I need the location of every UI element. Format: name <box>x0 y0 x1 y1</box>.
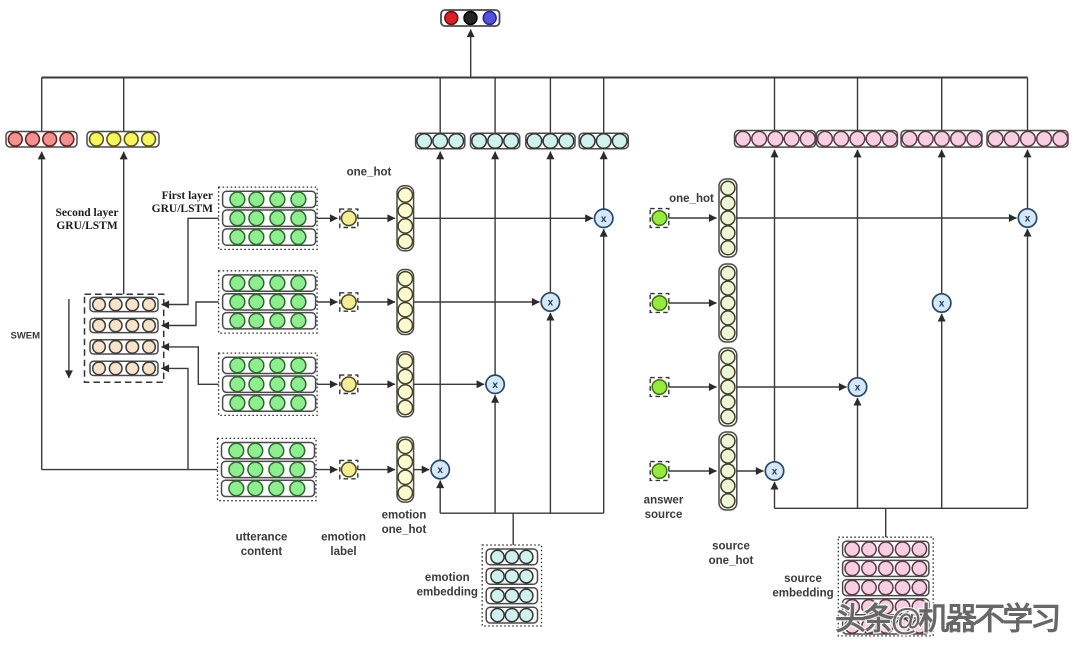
wire source embedding up into X4r <box>774 482 776 508</box>
emotion one_hot column 1 <box>397 186 414 251</box>
svg-text:one_hot: one_hot <box>709 555 754 567</box>
wire source one_hot4 to X4r <box>737 470 764 472</box>
wire block4 output left <box>42 469 218 471</box>
svg-text:First layer: First layer <box>162 190 213 202</box>
svg-text:embedding: embedding <box>772 588 833 600</box>
cyan weighted row 1 <box>416 133 465 149</box>
wire embedding up into X4 <box>439 481 441 514</box>
svg-text:utterance: utterance <box>236 532 288 544</box>
wire source one_hot3 to X3r <box>737 386 847 388</box>
pink weighted row 4 <box>987 131 1068 148</box>
wire embedding up into X1 <box>603 229 605 513</box>
wire bus horizontal <box>42 77 1028 79</box>
svg-text:one_hot: one_hot <box>382 524 427 536</box>
multiply node X2r <box>933 294 951 312</box>
wire X4r output into pink row 1 <box>774 150 776 462</box>
label one_hot left <box>347 167 392 179</box>
wire source embedding up into X2r <box>941 314 943 508</box>
wire emotion label 1 to one_hot column 1 <box>358 217 395 219</box>
wire block2 to SWEM row2 <box>162 302 219 326</box>
output classifier box <box>441 10 500 26</box>
emotion label node 2 <box>340 293 358 311</box>
answer source node 2 <box>650 294 669 313</box>
wire bus drop to pink row 4 <box>1027 78 1029 131</box>
wire arrow into output box <box>470 30 472 78</box>
pink weighted row 2 <box>817 131 898 148</box>
label emotion one_hot <box>382 510 427 537</box>
multiply node X3 <box>486 375 504 393</box>
utterance content block 3 <box>219 353 318 415</box>
wire source embedding up into X1r <box>1027 229 1029 508</box>
wire utterance4 up into red row <box>41 152 43 470</box>
label utterance content <box>236 532 288 559</box>
wire X3 output into cyan row 2 <box>494 152 496 376</box>
wire block3 to SWEM row3 <box>162 347 219 384</box>
emotion label node 1 <box>340 209 358 227</box>
wire X2 output into cyan row 3 <box>549 152 551 293</box>
wire bus drop to cyan row 4 <box>603 78 605 134</box>
svg-text:x: x <box>1025 214 1031 225</box>
wire bus drop to cyan row 1 <box>439 78 441 134</box>
svg-text:source: source <box>645 509 683 521</box>
emotion embedding box <box>482 545 541 626</box>
wire bus drop to red row <box>41 78 43 132</box>
label second layer GRU/LSTM <box>56 207 119 232</box>
svg-text:source: source <box>712 541 750 553</box>
cyan weighted row 2 <box>471 133 520 149</box>
multiply node X4 <box>431 460 449 478</box>
svg-text:emotion: emotion <box>321 532 366 544</box>
svg-text:x: x <box>855 383 861 394</box>
pink weighted row 3 <box>901 131 982 148</box>
wire emotion label 3 to one_hot column 3 <box>358 383 395 385</box>
multiply node X1 <box>595 209 613 227</box>
wire bus drop to pink row 1 <box>774 78 776 131</box>
wire X2r output into pink row 3 <box>941 150 943 294</box>
svg-text:label: label <box>330 546 356 558</box>
label answer source <box>644 495 684 522</box>
wire emotion label 2 to one_hot column 2 <box>358 301 395 303</box>
SWEM pooled row 4 <box>90 361 158 375</box>
source one_hot column 2 <box>719 264 737 342</box>
wire bus drop to pink row 2 <box>857 78 859 131</box>
svg-text:x: x <box>939 299 945 310</box>
answer source node 4 <box>650 462 669 481</box>
svg-text:SWEM: SWEM <box>11 331 41 342</box>
second-layer red state row <box>6 132 77 148</box>
svg-text:embedding: embedding <box>417 587 478 599</box>
svg-text:content: content <box>241 546 283 558</box>
second-layer yellow state row <box>87 132 159 148</box>
wire embedding up into X2 <box>549 313 551 513</box>
svg-text:answer: answer <box>644 495 684 507</box>
wire answer source 1 to source one_hot 1 <box>669 217 717 219</box>
SWEM pooled row 1 <box>90 297 158 311</box>
multiply node X2 <box>541 293 559 311</box>
wire source embedding up into X3r <box>857 398 859 508</box>
label one_hot right <box>669 193 714 205</box>
wire block4 branch to SWEM row4 <box>162 368 189 469</box>
label SWEM <box>11 331 41 342</box>
wire answer source 3 to source one_hot 3 <box>669 386 717 388</box>
multiply node X4r <box>765 462 783 480</box>
label first layer GRU/LSTM <box>152 190 213 215</box>
svg-text:source: source <box>784 573 822 585</box>
wire one_hot1 to X1 <box>414 217 593 219</box>
wire bus drop to pink row 3 <box>941 78 943 131</box>
label source embedding <box>772 573 833 600</box>
wire emotion embedding riser <box>512 513 514 545</box>
utterance content block 4 <box>218 438 317 500</box>
wire X4 output into cyan row 1 <box>439 152 441 461</box>
svg-text:one_hot: one_hot <box>669 193 714 205</box>
svg-text:头条@机器不学习: 头条@机器不学习 <box>835 602 1059 637</box>
cyan weighted row 3 <box>526 133 575 149</box>
wire source embedding bus <box>775 507 1028 509</box>
wire emotion embedding bus <box>440 512 604 514</box>
SWEM dashed box <box>85 294 164 382</box>
wire block2 to emotion label 2 <box>317 301 337 303</box>
SWEM pooled row 2 <box>90 318 158 332</box>
svg-text:x: x <box>437 465 443 476</box>
emotion one_hot column 3 <box>397 352 414 417</box>
wire source embedding riser <box>885 508 887 537</box>
svg-text:Second layer: Second layer <box>56 207 119 219</box>
answer source node 3 <box>650 378 669 397</box>
svg-text:emotion: emotion <box>425 572 470 584</box>
wire X1r output into pink row 4 <box>1027 150 1029 209</box>
SWEM direction arrow down <box>68 299 70 378</box>
wire X1 output into cyan row 4 <box>603 152 605 210</box>
label source one_hot <box>709 541 754 568</box>
svg-text:x: x <box>772 467 778 478</box>
wire block1 to emotion label 1 <box>317 217 337 219</box>
svg-text:GRU/LSTM: GRU/LSTM <box>152 203 213 215</box>
multiply node X3r <box>848 378 866 396</box>
svg-text:x: x <box>492 380 498 391</box>
wire embedding up into X3 <box>494 395 496 513</box>
wire answer source 4 to source one_hot 4 <box>669 470 717 472</box>
wire X3r output into pink row 2 <box>857 150 859 378</box>
wire one_hot2 to X2 <box>414 301 540 303</box>
wire one_hot4 to X4 <box>414 469 430 471</box>
answer source node 1 <box>650 209 669 228</box>
cyan weighted row 4 <box>579 133 628 149</box>
svg-text:one_hot: one_hot <box>347 167 392 179</box>
label emotion label <box>321 532 366 559</box>
wire block4 to emotion label 4 <box>316 469 338 471</box>
source one_hot column 1 <box>719 179 737 257</box>
utterance content block 1 <box>219 187 318 249</box>
wire answer source 2 to source one_hot 2 <box>669 302 717 304</box>
svg-text:GRU/LSTM: GRU/LSTM <box>56 220 117 232</box>
svg-text:x: x <box>601 214 607 225</box>
utterance content block 2 <box>219 271 318 333</box>
wire one_hot3 to X3 <box>414 383 485 385</box>
multiply node X1r <box>1018 209 1036 227</box>
wire block1 to SWEM row1 <box>162 218 219 304</box>
svg-text:emotion: emotion <box>382 510 427 522</box>
label emotion embedding <box>417 572 478 599</box>
emotion label node 4 <box>340 460 358 478</box>
source one_hot column 3 <box>719 348 737 426</box>
wire bus drop to cyan row 2 <box>494 78 496 134</box>
pink weighted row 1 <box>735 131 816 148</box>
wire emotion label 4 to one_hot column 4 <box>358 469 395 471</box>
emotion label node 3 <box>340 375 358 393</box>
svg-text:x: x <box>548 298 554 309</box>
wire SWEM box up into yellow row <box>123 152 125 294</box>
SWEM pooled row 3 <box>90 340 158 354</box>
source embedding box <box>838 537 933 636</box>
wire bus drop to cyan row 3 <box>549 78 551 134</box>
emotion one_hot column 2 <box>397 270 414 335</box>
emotion one_hot column 4 <box>397 437 414 502</box>
wire block3 to emotion label 3 <box>317 383 337 385</box>
wire source one_hot1 to X1r <box>737 217 1017 219</box>
wire bus drop to yellow row <box>123 78 125 132</box>
source one_hot column 4 <box>719 432 737 510</box>
